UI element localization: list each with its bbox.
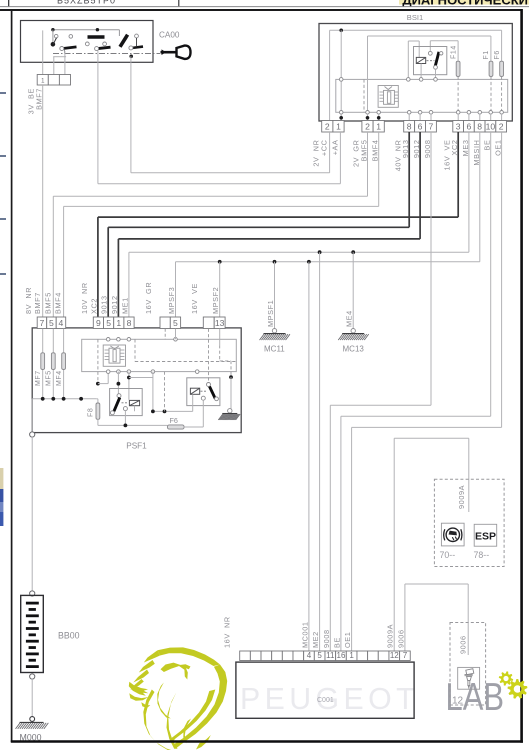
left margin tick 1 [0,92,6,94]
wire battery to ground [31,679,33,717]
BSI sub-box bottom ring 4 [407,111,411,115]
PSF1 sub-box top ring 9013 [106,338,110,342]
wire MPSF1 drop [274,262,276,329]
svg-text:MF5: MF5 [46,370,53,386]
BSI sub-box bottom ring 9 [478,111,482,115]
wire OE1 run [501,132,503,427]
BSI sub-box bottom ring 10 [489,111,493,115]
svg-text:1: 1 [349,651,354,660]
node BSI +AA tap [339,29,343,33]
wire BSI feed L1 (+CC rail to F6) [330,29,502,31]
node bus F8 branch [79,397,83,401]
svg-text:CA00: CA00 [159,31,180,40]
node CA00 linkage [129,55,133,59]
node BSI below-box a [339,116,343,120]
wire MF5 stub [52,329,54,399]
header cell divider [178,0,180,7]
wire F6 to right relay [184,426,203,428]
wire F6 to pin2 (dashed) [501,77,503,114]
relay BSI switch bottom ring [434,65,438,69]
relay BSI dashdot link [427,60,435,62]
battery BB00 plates [26,602,39,668]
ground M000 ring [30,717,35,722]
svg-text:MC001: MC001 [300,621,309,648]
svg-text:7: 7 [429,121,434,131]
fuse F1 [489,61,493,76]
node ME2 junction [318,250,322,254]
fuse MF5 [51,353,55,370]
relay BSI switch blade [435,52,439,67]
wire CA00 S3 out (to +CC) [130,56,132,62]
svg-text:BMF7: BMF7 [35,88,44,110]
switch CA00 S3 blade [120,35,128,47]
PSF1 inner connector sub-box [82,339,237,371]
PSF1 internal ground hatch [218,414,240,421]
diagnostic connector C001 pin row [240,651,251,661]
switch CA00 S1 link [54,38,57,44]
wire F8 out bus [97,419,99,425]
svg-text:MF4: MF4 [56,370,63,386]
BSI sub-box top ring 2 [407,78,411,82]
svg-text:4: 4 [307,651,312,660]
wire 9009A run [393,438,395,651]
BSI connector IC symbol [378,86,398,108]
wire MPSF2 drop [219,262,221,317]
svg-text:MPSF1: MPSF1 [266,300,275,327]
svg-text:12: 12 [390,651,399,660]
PSF1 internal ground ring [228,409,232,413]
wire +AA run [339,132,341,184]
svg-text:BMF5: BMF5 [43,292,52,314]
BSI sub-box bottom ring 3 [377,111,381,115]
svg-text:F6: F6 [494,50,501,59]
wire XC2 dashed in sub-box [97,339,99,383]
node bus MF4 [62,397,66,401]
svg-text:1: 1 [336,121,341,131]
node MPSF2 junction [218,260,222,264]
ignition switch CA00 box [21,21,154,63]
relay PSF1 center switch top ring [117,394,121,398]
svg-text:+AA: +AA [331,140,340,156]
PSF1 sub-box bottom ring d [151,370,155,374]
fuse MF4 [62,353,66,370]
page frame top [0,9,522,11]
relay PSF1 center coil [129,400,139,405]
BSI1 inner connector sub-box [336,79,508,112]
PSF1 battery terminal ring [30,432,35,437]
svg-text:MPSF3: MPSF3 [167,287,176,314]
battery BB00 bottom terminal ring [30,674,35,679]
wire MPSF3 stub into sub-box [175,329,177,340]
svg-text:ME4: ME4 [345,310,354,327]
CA00 mechanical linkage (dash-dot) [53,53,160,55]
svg-text:BMF7: BMF7 [33,292,42,314]
PSF1 pin group 8V NR [37,317,47,329]
wire CA00 feed drop [118,30,120,36]
wire BSI feed L2 (BMF5 rail to F1) [368,35,491,37]
wire relay center out [124,411,126,426]
wire BMF5 run [367,132,369,196]
node coil bus b [163,410,167,414]
svg-text:2: 2 [499,121,504,131]
svg-text:1: 1 [116,318,121,328]
left margin tick 4 [0,273,6,275]
wire CA00 S1 out1 [42,54,44,75]
diagnostic connector C001 body [236,662,414,718]
PSF1 sub-box top ring 9012 [117,338,121,342]
node ME4 junction [351,250,355,254]
ground MC13 ring [351,329,355,333]
node bus MF5 [51,397,55,401]
wire MF7 stub [42,329,44,399]
svg-text:MC11: MC11 [264,345,285,354]
switch CA00 S3 contact ring [129,46,133,50]
BSI pin group 40V NR [404,121,415,133]
wire PSF1 battery bus [32,398,96,400]
BSI pin group 16V VE [453,121,464,133]
svg-text:70--: 70-- [440,550,456,560]
wire BE run [490,132,492,416]
relay PSF1 center blade [114,398,120,412]
svg-text:MF7: MF7 [35,370,42,386]
svg-text:1: 1 [376,121,381,131]
BSI sub-box top ring 3 [419,78,423,82]
svg-text:8: 8 [127,318,132,328]
fuse F14 [456,61,460,76]
switch CA00 S1 contact bar [62,47,77,49]
wire MPSF2 drop into box [219,329,221,346]
svg-text:5: 5 [173,318,178,328]
BSI sub-box bottom ring 7 [456,111,460,115]
relay PSF1 center left ring [110,411,114,415]
PSF1 sub-box top ring MPSF3 [174,338,178,342]
svg-text:MC13: MC13 [343,345,365,354]
page frame right [520,9,523,743]
left margin tick 2 [0,155,6,157]
svg-text:16V NR: 16V NR [223,616,232,648]
wire BSI switch feed to F14 [429,41,431,52]
svg-text:BB00: BB00 [58,631,80,641]
battery BB00 box [21,595,44,672]
wire XC2 inner link [98,383,108,385]
ground MC11 ring [272,329,276,333]
switch CA00 S1 drop [52,30,54,44]
PSF1 sub-box bottom ring c [127,370,131,374]
switch CA00 S1 terminal a [54,34,58,38]
PSF1 sub-box bottom ring b [117,370,121,374]
switch CA00 S2 bridge bar [88,35,105,38]
BSI pin group 2V GR [362,121,373,133]
header cell divider left [8,0,10,7]
svg-text:2: 2 [325,121,330,131]
fusebox PSF1 outer box [32,328,241,433]
BSI sub-box bottom ring 2 [366,111,370,115]
relay PSF1 right switch top ring [207,383,211,387]
wire MBSIH ground run [479,132,481,262]
svg-text:5: 5 [317,651,322,660]
relay PSF1 right out ring [201,396,205,400]
BSI sub-box bottom ring 8 [467,111,471,115]
relay PSF1 right box [187,378,220,406]
svg-text:8: 8 [477,121,482,131]
PSF1 sub-box bottom ring e [195,370,199,374]
wire CA00 S1 out3 [64,51,66,75]
ground MC13 [338,334,369,341]
relay PSF1 center box [110,389,143,416]
relay PSF1 right blade [210,387,216,399]
sensor 9006 icon box [458,667,480,689]
wire +CC run [329,132,331,173]
svg-text:6: 6 [418,121,423,131]
wire empty-cell GR stub [164,329,166,340]
switch CA00 S1 pivot node [51,42,56,47]
wire PSF1 to battery [31,437,33,592]
relay PSF1 right coil [190,388,199,394]
PSF1 pin group 10V NR [93,317,103,329]
svg-text:16V GR: 16V GR [144,282,153,314]
node BSI below-box b [366,116,370,120]
svg-text:16: 16 [337,651,346,660]
node CA00 feed a [51,28,54,31]
svg-text:F1: F1 [483,50,490,59]
svg-text:13: 13 [215,318,225,328]
svg-text:8V NR: 8V NR [24,287,33,314]
svg-text:B5XZB5TP0: B5XZB5TP0 [57,0,116,5]
battery BB00 top terminal ring [30,591,35,596]
wire ME2 run [319,252,321,651]
header bottom rule [0,6,529,8]
node ME1 inner [127,376,131,380]
node MC001 junction [307,260,311,264]
wire CA00 S1 out2 [53,57,55,75]
switch CA00 S1 contact ring [60,47,64,51]
switch CA00 S2 terminal a [85,42,89,46]
BSI sub-box bottom ring 11 [500,111,504,115]
wire F1 to pin10 (dashed) [490,77,492,114]
svg-text:7: 7 [40,318,45,328]
svg-text:F6: F6 [170,416,178,425]
wire 9008 run [430,132,432,405]
node BSI below-box c [377,116,381,120]
svg-text:5: 5 [106,318,111,328]
svg-text:10: 10 [486,121,496,131]
node bus MF7 [41,397,45,401]
left margin sticker artifact [0,468,3,526]
switch CA00 S3 contact bar [132,47,144,48]
wire 9013 run (black) [408,132,410,227]
left margin tick 3 [0,218,6,220]
wire BSI coil feed [407,41,409,79]
svg-text:+CC: +CC [320,140,329,157]
relay PSF1 center out ring [123,407,127,411]
node CA00 feed b [96,28,99,31]
fuse F6 BSI [500,61,504,76]
svg-text:F14: F14 [451,45,458,59]
node PSF1 internal ground [229,375,233,379]
node F8 bus relay out [124,424,128,428]
sensor 9006 dashed box [450,623,486,706]
wire CA00 S2 out (to +AA) [97,51,99,63]
wire 9006 run [404,584,406,651]
BSI sub-box top ring 1 [339,78,343,82]
BSI pin group 2V NR [322,121,333,133]
wire 9012 run (black) [419,132,421,239]
ECU 9009A dashed box [434,479,504,566]
svg-text:9012: 9012 [110,295,119,314]
wire ME1/ME3 ground run [468,132,470,252]
wire F14 to pin3 (dashed) [457,77,459,114]
relay BSI coil drop [420,64,422,80]
svg-text:ME2: ME2 [311,631,320,648]
wire MPSF empty-cell drop (dashed) [208,329,210,383]
svg-text:PSF1: PSF1 [126,442,147,451]
svg-text:6: 6 [467,121,472,131]
fuse F6 PSF1 [167,425,184,429]
BSI sub-box bottom ring 1 [339,111,343,115]
sensor 9006 icon [465,669,474,688]
svg-text:9013: 9013 [100,295,109,314]
svg-text:MPSF2: MPSF2 [211,287,220,314]
node coil bus a [151,410,155,414]
svg-text:9009A: 9009A [386,624,395,648]
svg-text:7: 7 [403,651,408,660]
svg-text:ESP: ESP [475,530,496,542]
wire PSF1 internal ground [230,377,232,410]
PSF1 sub-box dashed partition v [134,339,136,361]
switch CA00 S1 out stub [64,50,66,54]
connector 3V BE cells [37,75,48,86]
wire 9013 to relay [117,372,119,394]
svg-text:78--: 78-- [474,550,490,560]
svg-text:C001: C001 [317,697,334,704]
svg-text:BMF4: BMF4 [54,292,63,314]
gear large [508,679,528,699]
svg-text:9006: 9006 [396,629,405,648]
PSF1 pin group 16V GR [160,317,170,329]
wire PSF1 coil bus [152,372,154,412]
BSI sub-box partition (dashed) [363,79,365,112]
ESP text box [474,524,497,546]
relay PSF1 right throw ring [215,397,219,401]
svg-text:F8: F8 [88,408,95,417]
svg-text:OE1: OE1 [343,632,352,648]
switch CA00 S3 link [136,38,138,47]
ground MC11 [260,334,291,341]
wire BSI +AA drop [340,30,342,120]
svg-text:12: 12 [452,696,464,707]
PSF1 pin group 16V VE [203,317,214,329]
svg-text:3: 3 [456,121,461,131]
wire XC2 run (black) [457,132,459,217]
gear small [499,671,513,685]
switch CA00 S1 terminal b [69,35,73,39]
ESP warning icon [444,528,462,541]
relay PSF1 center dashdot [122,402,129,404]
svg-text:XC2: XC2 [89,298,98,314]
wire MF4 stub [63,329,65,399]
wire bus to F8 [96,398,98,400]
wire BMF7 run [42,85,44,317]
svg-text:8: 8 [407,121,412,131]
BSI sub-box top ring 4 [434,78,438,82]
page frame bottom [11,740,523,743]
svg-text:11: 11 [326,651,335,660]
svg-text:9008: 9008 [322,629,331,648]
wire ME1 to relay coil [128,372,130,400]
svg-text:2: 2 [365,121,370,131]
BSI sub-box bottom ring 6 [429,111,433,115]
svg-text:4: 4 [59,318,64,328]
PSF1 sub-box top ring ME1 [127,338,131,342]
svg-text:16V VE: 16V VE [190,283,199,314]
relay BSI box [414,47,447,75]
svg-text:9009A: 9009A [457,485,466,509]
svg-text:ME1: ME1 [120,297,129,314]
header highlight (yellow marker behind title) [399,0,529,5]
relay PSF1 right dashdot [201,390,207,392]
ECU BSI1 outer box [319,24,512,122]
switch CA00 S2 terminal b [103,42,107,46]
wire ME4 drop [352,252,354,329]
wire ME1 inner branch [129,377,153,379]
svg-text:10V NR: 10V NR [80,282,89,314]
node XC2 inner [96,382,100,386]
BSI sub-box bottom ring 5 [418,111,422,115]
switch CA00 S3 terminal a [135,34,139,38]
svg-text:BE: BE [332,637,341,648]
PSF1 sub-box dashed partition h [135,361,236,363]
wire CA00 S1 out2 jog [53,56,66,58]
ESP warning icon box [441,523,464,546]
fuse MF7 [41,353,45,370]
relay BSI coil [416,57,425,63]
switch CA00 S1 inner out [42,30,44,53]
svg-text:5: 5 [49,318,54,328]
svg-text:9: 9 [96,318,101,328]
wire BSI pin stubs [340,114,342,121]
wire BMF4 run [378,132,380,206]
switch CA00 S2 contact ring [95,47,99,51]
PSF1 IC symbol [103,345,125,366]
CA00 feed line [53,29,120,31]
wire MC001 run [308,262,310,651]
wire relay coil down [134,406,136,412]
key symbol CA00 [161,46,191,59]
wire MPSF3 dashed drop [164,372,166,412]
relay BSI switch out drop [435,69,437,79]
node 9013 inner [117,382,121,386]
PSF1 sub-box bottom ring a [106,370,110,374]
lion watermark [129,647,227,750]
node MPSF1 junction [273,260,277,264]
svg-text:BSI1: BSI1 [407,13,423,22]
svg-text:9006: 9006 [459,635,468,654]
relay BSI switch top-right ring [440,52,443,55]
ground M000 [16,722,49,729]
page frame left [11,9,13,742]
relay BSI switch top ring [428,51,432,55]
switch CA00 S2 contact bar [97,47,111,49]
fuse F8 [96,403,100,419]
